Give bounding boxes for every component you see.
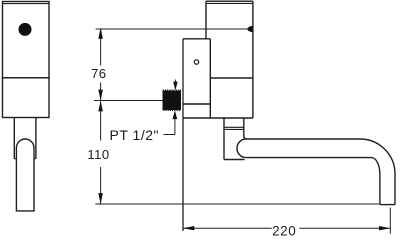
front view: spout inner outline — [246, 158, 380, 205]
front view: pipe bottom line — [224, 159, 245, 161]
front view: body top double line — [206, 0, 253, 2]
side view: sleeve shoulder right — [34, 158, 36, 160]
side view: body top inner line — [3, 3, 50, 5]
dim 76: bottom arrow — [98, 90, 103, 101]
dim 110: upper arrow (points up) — [98, 101, 103, 112]
dim 220: left arrow — [183, 226, 194, 230]
front view: handle screw circle — [194, 60, 198, 64]
side view: sleeve shoulder left — [14, 158, 16, 160]
front view: handle plate top line — [183, 38, 210, 40]
front view: handle right edge — [209, 39, 211, 118]
side view: valve sleeve left line — [13, 118, 15, 159]
front view: body middle line — [210, 77, 253, 79]
front view: thread block serration top — [163, 89, 181, 91]
dim 220: dimension line left segment — [183, 227, 272, 229]
svg-text:PT 1/2": PT 1/2" — [110, 127, 159, 143]
front view: thread block serration bottom — [163, 109, 181, 111]
svg-text:220: 220 — [272, 223, 296, 236]
thread arrow upper (points down at block top) — [174, 80, 176, 85]
dim 76: dimension line upper segment — [100, 29, 102, 65]
front view: wall line — [182, 39, 184, 231]
front view: handle bottom line — [183, 103, 210, 105]
side view: indicator dot — [19, 23, 32, 36]
dim 76: top extension line — [96, 28, 248, 30]
front view: spout nut double line upper — [224, 126, 244, 128]
dim 76: dimension line lower segment — [100, 82, 102, 100]
dim 76: top arrow — [98, 28, 103, 39]
dim 220: right extension line — [389, 208, 391, 234]
dim 220: right arrow — [379, 226, 390, 230]
side view: lever handle bar — [16, 139, 34, 211]
front view: body top inner line — [206, 2, 253, 4]
dim 76: body edge arrow blob — [247, 26, 253, 33]
side view: body lower rectangle — [3, 78, 50, 118]
front view: inlet thread block — [163, 91, 182, 111]
front view: spout nut left edge — [223, 118, 225, 160]
leader line to PT 1/2" text — [164, 134, 175, 136]
side view: body top rectangle — [3, 2, 50, 78]
mid extension line at pipe center — [94, 100, 163, 102]
thread arrow lower (points up at block bottom) — [174, 119, 176, 135]
svg-text:110: 110 — [87, 147, 109, 162]
front view: spout nut double line lower — [224, 128, 244, 130]
dim 220: dimension line right segment — [299, 227, 390, 229]
front view: spout end line — [380, 204, 395, 206]
dim 110: dimension line lower segment — [100, 167, 102, 204]
dim 110: bottom arrow — [98, 193, 103, 204]
svg-text:76: 76 — [91, 66, 106, 81]
dim 110: bottom extension line — [95, 203, 380, 205]
front view: body left edge — [205, 1, 207, 39]
front view: spout left cap arc — [237, 139, 247, 158]
front view: body right edge — [252, 1, 254, 118]
front view: body bottom line — [183, 117, 253, 119]
side view: valve sleeve right line — [35, 118, 37, 159]
dim 110: dimension line upper segment — [100, 101, 102, 141]
front view: spout outer outline — [244, 118, 395, 205]
